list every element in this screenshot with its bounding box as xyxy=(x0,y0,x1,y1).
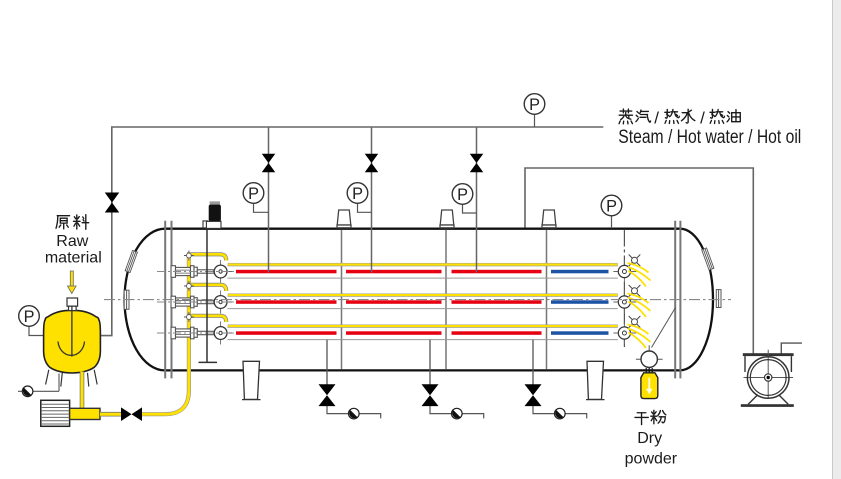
baffle plate 1 xyxy=(341,230,343,369)
heating tube row 2 outline xyxy=(228,296,618,308)
valve V3 xyxy=(470,154,484,172)
drain valve DV1 xyxy=(319,384,336,406)
heater blue segment row 3 xyxy=(551,331,609,335)
rotary joint circle row 1 right xyxy=(613,260,636,283)
svg-text:P: P xyxy=(606,197,617,215)
svg-text:powder: powder xyxy=(625,450,678,467)
drain valve DV2 xyxy=(422,384,439,406)
shaft seal assembly row 1 xyxy=(171,266,214,278)
left saddle support xyxy=(242,361,261,399)
right tip flange xyxy=(716,290,721,308)
top nozzle N2 xyxy=(440,210,454,228)
feed elbow (J-hook) row 2 xyxy=(187,285,226,291)
vent cross mark row 1 xyxy=(629,255,641,267)
label steam chinese xyxy=(619,109,632,124)
heater red segment row 3 b xyxy=(346,331,442,335)
feed valve FV xyxy=(121,407,142,421)
drain pipe 3 xyxy=(532,340,534,385)
svg-text:material: material xyxy=(45,250,102,267)
svg-text:P: P xyxy=(24,308,35,326)
feed pipe riser xyxy=(142,255,189,415)
dryer shell bottom xyxy=(164,369,681,371)
discharge neck xyxy=(646,368,652,373)
label dry powder xyxy=(635,413,648,425)
feed elbow (J-hook) row 3 xyxy=(187,316,226,322)
vacuum pump legs xyxy=(748,395,788,405)
svg-text:P: P xyxy=(457,186,468,204)
page edge shading right xyxy=(833,0,841,479)
shaft seal assembly row 3 xyxy=(171,327,214,339)
powder spray row 1 (yellow arcs) xyxy=(628,263,651,287)
bottle arrow xyxy=(646,378,653,395)
gauge P1 xyxy=(243,183,264,204)
dry powder bottle xyxy=(641,373,658,399)
drain sensor 1 xyxy=(349,408,360,419)
feed tee mark row 2 xyxy=(184,281,194,291)
shaft seal assembly row 2 xyxy=(171,296,214,308)
valve V0 (left steam drop) xyxy=(105,193,120,213)
agitator shaft xyxy=(206,230,208,363)
feed elbow (J-hook) row 1 xyxy=(187,254,226,260)
heater red segment row 3 a xyxy=(236,331,337,335)
valve V1 xyxy=(262,154,276,172)
powder spray row 2 (yellow arcs) xyxy=(628,294,651,318)
top nozzle N1 xyxy=(337,210,351,228)
heating tube row 3 outline xyxy=(228,327,618,339)
drain pipe 1 xyxy=(326,340,328,385)
heater red segment row 2 b xyxy=(346,300,442,304)
feed tee mark row 1 xyxy=(184,251,194,261)
feed pump body xyxy=(70,408,100,419)
steam drop pipe 2 xyxy=(371,127,373,273)
dryer shell top xyxy=(164,228,681,230)
right discharge column line xyxy=(623,230,625,348)
svg-text:/: / xyxy=(654,108,659,127)
left tip flange xyxy=(124,290,129,309)
feed tee mark row 3 xyxy=(184,312,194,322)
right dished head xyxy=(680,229,713,371)
top nozzle N3 xyxy=(542,210,556,228)
feed distribution pipe row 1 (yellow) xyxy=(228,263,618,266)
gauge P2 xyxy=(347,183,368,204)
discharge valve circle xyxy=(636,345,663,368)
valve V2 xyxy=(365,154,379,172)
drain pipe 2 xyxy=(429,340,431,385)
gauge P5 xyxy=(19,306,40,327)
vacuum line to pump xyxy=(525,168,753,354)
row 2 centreline xyxy=(157,301,234,303)
heating tube row 1 outline xyxy=(228,266,618,278)
left head upper flange (tilted) xyxy=(125,250,137,272)
vacuum pump casing sides xyxy=(745,356,791,372)
left flange pair xyxy=(165,221,171,379)
tank drop pipe xyxy=(80,372,85,409)
svg-text:P: P xyxy=(529,96,540,114)
pump discharge stub xyxy=(781,343,802,354)
gauge P2 stub xyxy=(358,204,372,213)
vacuum pump cross xyxy=(744,350,794,398)
svg-text:Steam / Hot water / Hot oil: Steam / Hot water / Hot oil xyxy=(618,127,801,148)
vacuum pump body xyxy=(747,357,789,399)
label raw material xyxy=(56,216,70,229)
steam drop pipe 3 xyxy=(476,127,478,273)
heater red segment row 1 a xyxy=(236,270,337,274)
svg-text:P: P xyxy=(352,185,363,203)
vacuum pump top plate xyxy=(743,353,794,356)
vacuum pump base xyxy=(741,404,794,407)
gauge P5 stub xyxy=(29,327,44,336)
agitator foot xyxy=(199,361,218,363)
feed distribution pipe row 2 (yellow) xyxy=(228,294,618,297)
baffle plate 2 xyxy=(445,230,447,369)
right saddle support xyxy=(586,361,605,399)
drive motor M1 xyxy=(203,201,221,228)
gauge P4 xyxy=(601,195,622,216)
steam manifold pipe (top) xyxy=(101,127,603,336)
gauge P3 xyxy=(452,184,473,205)
heater blue segment row 2 xyxy=(551,300,609,304)
main centreline xyxy=(104,299,731,301)
gauge P4 stub xyxy=(611,216,613,228)
row 1 centreline xyxy=(157,271,234,273)
tank sensor xyxy=(22,386,33,397)
heater red segment row 2 a xyxy=(236,300,337,304)
heater red segment row 3 c xyxy=(452,331,542,335)
row 3 centreline xyxy=(157,332,234,334)
gauge P top stub xyxy=(534,115,536,128)
heater blue segment row 1 xyxy=(551,270,609,274)
drain valve DV3 xyxy=(525,384,542,406)
svg-text:/: / xyxy=(700,108,705,127)
right flange pair xyxy=(675,221,680,379)
right head upper flange (tilted) xyxy=(702,248,714,270)
rotary joint circle row 2 right xyxy=(613,291,636,314)
rotary joint circle row 2 left xyxy=(208,291,234,314)
tank legs xyxy=(46,370,98,387)
rotary joint circle row 3 left xyxy=(208,322,234,345)
gauge P3 stub xyxy=(463,205,477,214)
left dished head xyxy=(125,229,166,371)
svg-text:Dry: Dry xyxy=(637,430,662,447)
svg-text:Raw: Raw xyxy=(56,233,88,250)
discharge leader line xyxy=(652,308,676,348)
feed pump motor xyxy=(41,400,70,426)
heater red segment row 2 c xyxy=(452,300,542,304)
heater red segment row 1 c xyxy=(452,270,542,274)
drain sensor 3 xyxy=(555,408,566,419)
gauge P1 stub xyxy=(254,204,269,213)
heater red segment row 1 b xyxy=(346,270,442,274)
vent cross mark row 3 xyxy=(629,316,641,328)
gauge P top xyxy=(524,94,545,115)
steam drop pipe 1 xyxy=(268,127,270,273)
rotary joint circle row 3 right xyxy=(613,322,636,345)
feed tank (yellow) xyxy=(44,310,101,373)
svg-text:P: P xyxy=(248,185,259,203)
powder spray row 3 (yellow arcs) xyxy=(628,325,651,349)
feed distribution pipe row 3 (yellow) xyxy=(228,325,618,328)
feed arrow (yellow) xyxy=(68,271,77,294)
rotary joint circle row 1 left xyxy=(208,260,234,283)
feed pipe to valve xyxy=(100,412,121,417)
tank nozzle square xyxy=(67,298,78,311)
tank stirrer xyxy=(71,307,73,357)
tank level sensor line xyxy=(18,374,59,392)
drain sensor 2 xyxy=(452,408,463,419)
vent cross mark row 2 xyxy=(629,285,641,297)
baffle plate 3 xyxy=(546,230,548,369)
